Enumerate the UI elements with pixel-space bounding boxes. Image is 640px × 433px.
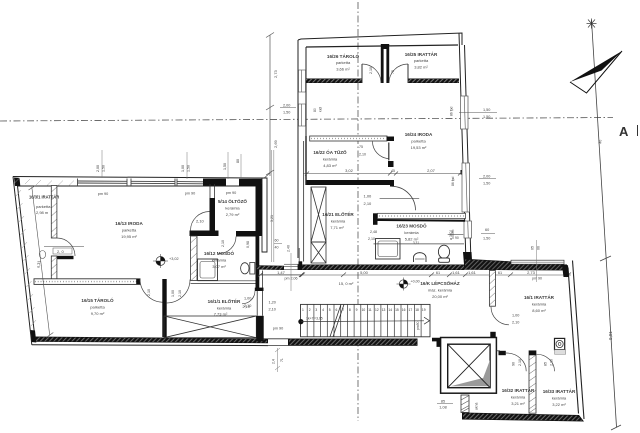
window right wall 2	[462, 163, 470, 212]
svg-text:5/14 ÖLTÖZŐ: 5/14 ÖLTÖZŐ	[218, 198, 247, 204]
bottom outer line	[30, 337, 33, 345]
room label LEPCSOHAZ	[420, 279, 460, 299]
svg-text:16/26 TÁROLÓ: 16/26 TÁROLÓ	[327, 52, 360, 59]
svg-text:2,10: 2,10	[364, 201, 373, 206]
svg-text:pm 90: pm 90	[273, 327, 284, 331]
svg-text:2,69: 2,69	[273, 139, 278, 148]
room label 5/14 OLTOZO	[218, 198, 247, 217]
corridor west wall lines	[303, 141, 305, 262]
partition screen line	[374, 243, 465, 245]
left inner wall line	[18, 186, 35, 334]
room 16/22 left wall	[305, 136, 307, 185]
svg-text:akná: akná	[475, 403, 479, 410]
svg-text:1,00: 1,00	[364, 194, 373, 199]
svg-text:16/1/1 ELŐTÉR: 16/1/1 ELŐTÉR	[208, 297, 241, 304]
door arc 16/26	[362, 64, 381, 83]
svg-text:3,31: 3,31	[413, 241, 419, 245]
window in long wall	[284, 264, 299, 269]
small fixture circle	[39, 251, 45, 259]
dim 05/06 line	[536, 240, 538, 282]
shaft top right stub	[490, 332, 495, 338]
wall left band inner	[305, 47, 307, 136]
svg-text:5,00: 5,00	[360, 270, 369, 275]
svg-text:2,79 m²: 2,79 m²	[226, 212, 240, 217]
svg-text:2,07: 2,07	[427, 168, 436, 173]
svg-text:2, 0: 2, 0	[57, 249, 64, 254]
room label 16/33 IRATTAR	[543, 388, 576, 407]
dim row below long wall	[258, 273, 571, 278]
east gap double line	[270, 150, 272, 262]
svg-text:3,02: 3,02	[345, 168, 354, 173]
svg-text:16/1 IRATTÁR: 16/1 IRATTÁR	[524, 294, 555, 300]
wall 16/26 bottom	[306, 79, 362, 84]
svg-text:pm 90: pm 90	[532, 277, 542, 281]
wall segment top black b	[239, 179, 262, 186]
svg-text:pm 90: pm 90	[185, 192, 196, 196]
svg-text:18: 18	[415, 308, 419, 312]
outer wall outline top	[298, 33, 462, 258]
svg-text:86 fpd: 86 fpd	[450, 106, 454, 116]
svg-text:kerámia: kerámia	[511, 395, 526, 400]
room label 16/13 IRODA	[115, 221, 143, 239]
shaft X	[448, 344, 490, 388]
2,00/1,50 mid	[451, 175, 496, 187]
svg-text:pm 90: pm 90	[226, 191, 237, 195]
bidet	[414, 253, 427, 262]
svg-text:7,71 m²: 7,71 m²	[330, 225, 344, 230]
window C top wall	[177, 179, 203, 187]
shaft left stub	[432, 338, 441, 347]
svg-text:1,50: 1,50	[483, 108, 490, 112]
partition wall below door hatched	[51, 256, 57, 281]
dims 1,47 / DFt2,06	[260, 274, 302, 276]
svg-text:kerámia: kerámia	[532, 302, 547, 307]
room label 16/21 ELOTER	[322, 210, 354, 230]
svg-text:17: 17	[409, 308, 413, 312]
room label 16/1/1 ELOTER	[208, 297, 241, 317]
svg-text:45: 45	[391, 169, 395, 173]
mosdo left wall hatched	[191, 236, 198, 281]
svg-text:85: 85	[544, 362, 548, 366]
svg-text:4: 4	[322, 308, 324, 312]
svg-text:1,00: 1,00	[512, 314, 519, 318]
svg-text:0,98: 0,98	[246, 241, 250, 248]
svg-text:2,10: 2,10	[359, 153, 366, 157]
svg-text:kerámia: kerámia	[331, 219, 346, 224]
window left wall upper	[299, 70, 306, 92]
stairs outline	[301, 304, 431, 336]
wall oltozo/mosdo left part	[190, 231, 219, 237]
svg-text:3,66 m²: 3,66 m²	[336, 67, 350, 72]
section line A	[592, 20, 617, 427]
svg-text:16/12 MOSDÓ: 16/12 MOSDÓ	[204, 249, 235, 256]
door arc 16/3/1	[57, 238, 75, 256]
svg-text:2,10: 2,10	[269, 308, 276, 312]
parapet window right	[511, 260, 564, 264]
left wall light hatch	[15, 178, 75, 326]
door arc 16/32	[506, 353, 526, 371]
room label 16/24 IRODA	[405, 132, 433, 150]
corner black right	[463, 252, 473, 268]
NORTH/SECTION	[570, 19, 638, 431]
svg-text:60: 60	[275, 239, 279, 243]
wall below stairs	[288, 339, 418, 346]
washbasin counter	[376, 239, 401, 260]
svg-text:16/33 IRATTÁR: 16/33 IRATTÁR	[543, 388, 576, 394]
svg-text:kerámia: kerámia	[225, 206, 240, 211]
svg-text:3,82 m²: 3,82 m²	[414, 65, 428, 70]
arrow ticks 1,47 dim	[299, 273, 304, 278]
svg-text:1,50: 1,50	[283, 111, 290, 115]
horizontal centre axis	[0, 118, 613, 122]
svg-text:9: 9	[356, 308, 358, 312]
section tick	[600, 256, 611, 261]
left outer wall line	[13, 177, 31, 338]
svg-text:2,40: 2,40	[287, 245, 291, 252]
room label 16/12 MOSDO	[204, 249, 235, 269]
shaft outer	[441, 338, 497, 394]
svg-text:2,10: 2,10	[368, 237, 375, 241]
svg-text:2,73: 2,73	[527, 270, 536, 275]
room label 16/26 TAROLO	[327, 52, 360, 72]
svg-text:10: 10	[362, 308, 366, 312]
svg-text:16/15 TÁROLÓ: 16/15 TÁROLÓ	[81, 296, 114, 303]
svg-text:1,20: 1,20	[269, 301, 276, 305]
door arc eloter	[242, 291, 255, 304]
svg-text:2,10: 2,10	[243, 305, 250, 309]
right stair wall hatched	[489, 271, 495, 307]
bottom wall	[462, 413, 584, 422]
wall stub left of door1	[499, 351, 506, 355]
svg-text:2,10: 2,10	[369, 67, 373, 74]
svg-text:1: 1	[302, 308, 304, 312]
wire inner top wall line	[306, 45, 458, 47]
corner black bottom-left	[31, 330, 37, 343]
long wall right slanted segment	[464, 259, 567, 271]
svg-text:+3,02: +3,02	[169, 257, 179, 261]
svg-text:pm90: pm90	[416, 321, 420, 330]
svg-text:13: 13	[382, 308, 386, 312]
wall 16/25 bottom	[408, 79, 459, 84]
door arc stair to 16/1	[491, 307, 509, 325]
svg-text:19: 19	[422, 308, 426, 312]
svg-text:75: 75	[359, 145, 363, 149]
vertical centre axis	[357, 2, 359, 421]
slanted interior dim line along left wall	[29, 186, 54, 338]
svg-text:80: 80	[236, 159, 240, 163]
svg-text:12: 12	[375, 308, 379, 312]
wall tick right	[461, 170, 468, 175]
room 16/22 bottom wall	[306, 180, 390, 185]
corner tick	[263, 173, 271, 180]
door arc 16/25	[389, 64, 408, 83]
jamb below door	[388, 161, 394, 167]
long wall left segment to oltozo	[256, 265, 285, 270]
window right wall 3	[464, 221, 472, 238]
svg-text:2,48: 2,48	[370, 230, 377, 234]
svg-text:máz. kerámia: máz. kerámia	[428, 288, 453, 293]
svg-text:5: 5	[329, 308, 331, 312]
svg-text:kerámia: kerámia	[323, 157, 338, 162]
svg-text:1,61: 1,61	[468, 270, 477, 275]
door arc oltozo	[191, 212, 210, 231]
room 16/22 door arc	[373, 142, 389, 159]
svg-text:2,10: 2,10	[147, 289, 151, 296]
svg-text:kidl: kidl	[319, 107, 323, 112]
svg-text:61: 61	[498, 271, 502, 275]
partition wall 16/3/1 hatched	[51, 186, 57, 239]
svg-text:16: 16	[402, 308, 406, 312]
svg-text:parketta: parketta	[411, 139, 426, 144]
right outer wall double line	[568, 268, 579, 414]
svg-text:16/32 IRATTÁR: 16/32 IRATTÁR	[502, 387, 535, 393]
svg-text:A: A	[619, 124, 629, 139]
shaft gray shading	[482, 360, 490, 387]
svg-text:16/22 ÓA TŰZŐ: 16/22 ÓA TŰZŐ	[313, 148, 347, 155]
svg-text:2,4: 2,4	[272, 359, 276, 364]
shaft inner	[448, 344, 490, 388]
oltozo left wall black	[210, 198, 216, 231]
room label 16/25 IRATTAR	[405, 51, 438, 70]
svg-text:1,50: 1,50	[483, 237, 490, 241]
bottom wall black band	[32, 337, 268, 344]
corner black	[562, 265, 569, 277]
stair risers	[307, 304, 421, 336]
small dim below opening	[275, 348, 280, 372]
north star	[587, 19, 597, 29]
door arc corridor left	[140, 279, 164, 303]
level marker +-0,00	[397, 278, 420, 291]
svg-text:6: 6	[336, 308, 338, 312]
svg-text:20,00 m²: 20,00 m²	[432, 294, 448, 299]
shaft X boxes	[311, 187, 326, 263]
dim 85/1,08	[437, 403, 453, 405]
svg-text:1,50: 1,50	[483, 182, 490, 186]
svg-text:85: 85	[441, 400, 445, 404]
extension line x291	[290, 253, 292, 291]
svg-text:parketta: parketta	[414, 58, 429, 63]
svg-text:16/3/1 IRATTÁR: 16/3/1 IRATTÁR	[29, 195, 59, 200]
middle wall hatched	[529, 351, 536, 413]
svg-text:parketta: parketta	[122, 228, 137, 233]
svg-text:2,00: 2,00	[96, 165, 100, 172]
elevation marker +3,02	[153, 254, 179, 268]
mosdo bottom thin lines	[198, 280, 256, 282]
svg-text:2,10: 2,10	[178, 290, 182, 297]
svg-text:40: 40	[275, 246, 279, 250]
svg-text:2,00: 2,00	[283, 104, 290, 108]
svg-text:8,60 m²: 8,60 m²	[532, 308, 546, 313]
svg-text:+0,00: +0,00	[411, 280, 420, 284]
room label 16/23 MOSDO	[396, 222, 427, 246]
svg-text:90: 90	[455, 236, 459, 240]
top dim extension lines	[102, 150, 241, 179]
svg-text:60: 60	[485, 228, 489, 232]
outer outline	[13, 177, 268, 346]
svg-text:86 fpd: 86 fpd	[451, 176, 455, 186]
washbasin mosdo	[198, 259, 218, 281]
wc	[438, 245, 449, 258]
oltozo right wall	[256, 184, 263, 236]
svg-text:71: 71	[280, 358, 284, 362]
TOP BUILDING	[298, 33, 473, 268]
top wall inner line	[18, 185, 263, 187]
svg-text:2,00: 2,00	[483, 175, 490, 179]
svg-text:1,47: 1,47	[277, 270, 286, 275]
interior wall vertical stub	[162, 279, 166, 337]
svg-text:8: 8	[349, 308, 351, 312]
svg-text:16/23 MOSDÓ: 16/23 MOSDÓ	[396, 222, 427, 229]
room 16/22 top wall hatched	[310, 136, 394, 141]
wall oltozo/mosdo right part	[236, 231, 256, 237]
right wall of top building	[459, 33, 473, 268]
svg-text:parketta: parketta	[36, 204, 51, 209]
long wall main band	[298, 265, 464, 271]
room 16/22 door leaf	[388, 143, 390, 161]
svg-text:1,61: 1,61	[452, 270, 461, 275]
stair step numbers	[302, 308, 426, 312]
svg-text:parketta: parketta	[90, 305, 105, 310]
svg-text:kerámia: kerámia	[212, 258, 227, 263]
svg-text:3,21 m²: 3,21 m²	[511, 401, 525, 406]
stair cut line	[330, 304, 344, 336]
svg-text:parketta: parketta	[336, 60, 351, 65]
svg-text:1,00: 1,00	[171, 290, 175, 297]
svg-text:1,50: 1,50	[223, 163, 227, 170]
stair walk line	[298, 319, 303, 324]
svg-text:2: 2	[309, 308, 311, 312]
STAIRWELL	[258, 259, 571, 413]
wc mosdo	[250, 263, 255, 275]
svg-text:2,10: 2,10	[550, 359, 554, 366]
door arc corridor right	[167, 280, 190, 304]
svg-text:16/21 ELŐTÉR: 16/21 ELŐTÉR	[322, 210, 354, 217]
svg-text:kerámia: kerámia	[404, 230, 419, 235]
eloter X box right wall	[256, 316, 263, 342]
svg-text:15: 15	[395, 308, 399, 312]
door arc mosdo inner	[219, 237, 236, 254]
svg-text:06: 06	[537, 246, 541, 250]
svg-text:16/24 IRODA: 16/24 IRODA	[405, 132, 433, 137]
top outer wall line	[13, 177, 262, 179]
svg-text:1,50: 1,50	[483, 115, 490, 119]
RIGHT SIDE fraction dims	[266, 33, 497, 187]
svg-text:11: 11	[368, 308, 372, 312]
svg-text:pm 90: pm 90	[98, 192, 109, 196]
svg-text:14: 14	[388, 308, 392, 312]
svg-text:2,73: 2,73	[273, 69, 278, 78]
svg-text:4,83 m²: 4,83 m²	[323, 163, 337, 168]
window left wall lower	[299, 104, 306, 126]
svg-text:90: 90	[512, 362, 516, 366]
svg-text:2,10: 2,10	[221, 240, 225, 247]
mosdo 16/23 top wall	[373, 213, 466, 225]
svg-text:kerámia: kerámia	[552, 396, 567, 401]
svg-text:36: 36	[598, 139, 602, 144]
big door arc to 16/24	[392, 186, 416, 210]
svg-text:2,10: 2,10	[518, 359, 522, 366]
interior dim row	[303, 172, 462, 176]
window A top wall	[78, 179, 128, 187]
svg-text:a 36: a 36	[449, 233, 453, 240]
right end wall corner	[262, 178, 267, 252]
wall segment top black a	[203, 179, 226, 186]
svg-text:1,08: 1,08	[439, 406, 446, 410]
svg-text:1,00: 1,00	[181, 165, 185, 172]
svg-text:16/K LÉPCSŐHÁZ: 16/K LÉPCSŐHÁZ	[420, 279, 460, 286]
svg-text:16/25 IRATTÁR: 16/25 IRATTÁR	[405, 51, 438, 57]
room label 16/1 IRATTAR	[524, 294, 555, 313]
svg-text:2,10: 2,10	[512, 321, 519, 325]
corridor thin double wall	[256, 271, 258, 316]
1,50/1,50 top	[450, 106, 498, 119]
north arrow flag	[570, 51, 622, 82]
interior wall horizontal dotted	[34, 279, 140, 285]
svg-text:15, 0 m²: 15, 0 m²	[339, 281, 354, 286]
svg-text:1,00: 1,00	[244, 297, 251, 301]
eloter X box	[164, 316, 256, 338]
window jamb right	[299, 261, 303, 267]
pier below shaft hatched	[461, 395, 469, 413]
svg-text:19,53 m²: 19,53 m²	[411, 145, 427, 150]
svg-text:kerámia: kerámia	[217, 306, 232, 311]
left of top building 2,00/1,50	[280, 104, 296, 115]
wall stub L below door	[51, 256, 74, 259]
room label 16/22	[313, 148, 347, 168]
svg-text:05: 05	[531, 246, 535, 250]
mosdo right wall lower	[256, 236, 260, 288]
svg-text:75: 75	[391, 70, 395, 74]
BOTTOM RIGHT BUILDING	[449, 228, 584, 422]
dim tick 75	[448, 233, 464, 235]
dim line x=270	[266, 33, 274, 177]
pm90 door gap bottom	[268, 339, 290, 346]
partition wall center U	[381, 44, 389, 83]
svg-text:9,70 m²: 9,70 m²	[91, 311, 105, 316]
svg-text:9,01: 9,01	[608, 331, 613, 340]
svg-text:16/13 IRODA: 16/13 IRODA	[115, 221, 143, 226]
svg-text:2,98 m: 2,98 m	[36, 210, 49, 215]
oltozo left wall thin	[209, 184, 211, 198]
svg-text:2,10: 2,10	[196, 219, 205, 224]
svg-text:1k+7'=3,05: 1k+7'=3,05	[306, 317, 323, 321]
svg-text:80: 80	[313, 108, 317, 112]
room label 16/15 TAROLO	[81, 296, 114, 316]
window B top wall	[131, 179, 175, 187]
corner black top-left	[14, 178, 20, 187]
svg-text:19,95 m²: 19,95 m²	[121, 234, 137, 239]
door arc 16/33	[536, 354, 554, 371]
svg-text:3,22 m²: 3,22 m²	[552, 402, 566, 407]
svg-text:3,07 m²: 3,07 m²	[212, 264, 226, 269]
svg-text:61: 61	[436, 271, 440, 275]
LEFT BUILDING	[13, 141, 304, 346]
svg-text:3,21: 3,21	[270, 215, 274, 222]
svg-text:3: 3	[315, 308, 317, 312]
window right wall 1	[461, 96, 469, 129]
top dim rotated texts	[96, 159, 240, 172]
room label 16/32 IRATTAR	[502, 387, 535, 406]
vent square	[555, 338, 566, 354]
right edge small wall tick	[496, 350, 500, 352]
